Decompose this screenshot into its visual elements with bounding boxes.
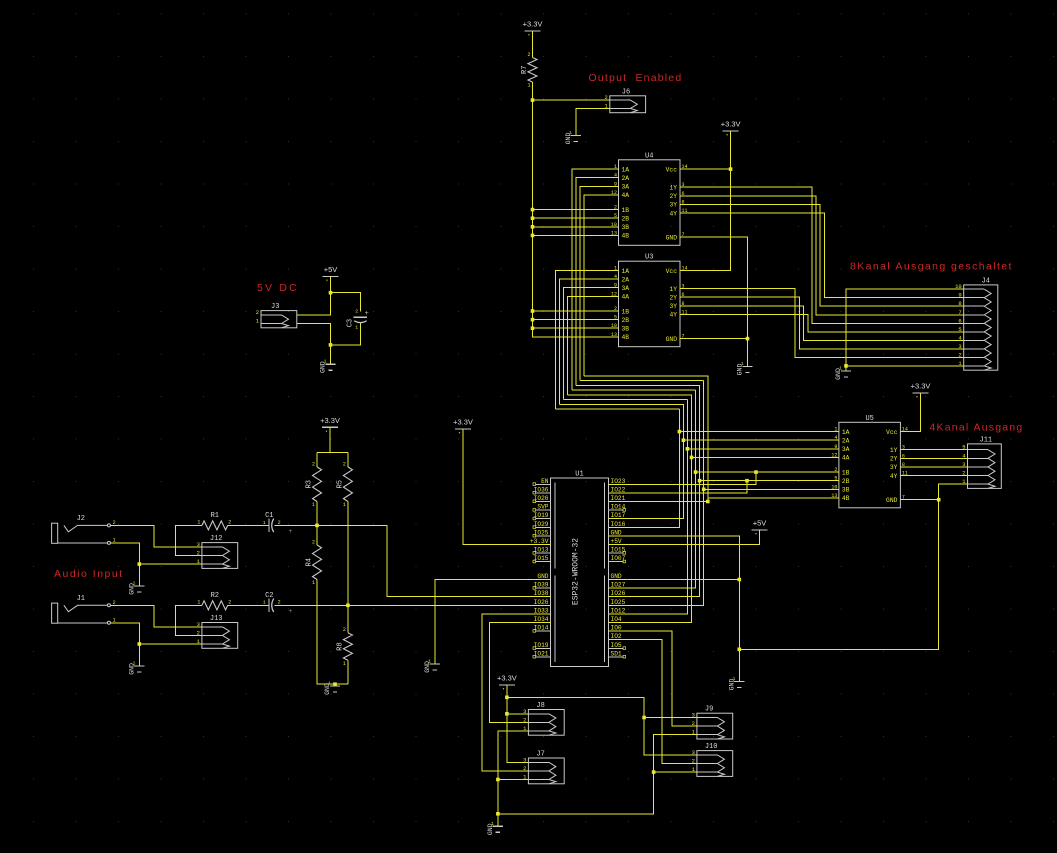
wire signal 3 to A input [564,288,619,400]
svg-text:IO27: IO27 [611,582,626,589]
svg-text:1: 1 [263,600,266,606]
wire to J9 pin3 [644,717,697,719]
svg-text:+3.3V: +3.3V [320,416,340,425]
svg-text:13: 13 [611,230,617,236]
wire gnd rail right [498,735,697,814]
wire U4 output to J4 pin 9 [680,213,964,298]
wire U4 output to J4 pin 8 [680,204,964,306]
svg-text:J1: J1 [77,595,85,603]
junction v6 U5 B tap [698,479,702,483]
wire U3 output to J4 pin 2 [680,289,964,358]
svg-text:GND: GND [537,573,548,580]
svg-text:2: 2 [228,519,231,525]
wire R1 to C1 [228,524,269,526]
svg-text:2A: 2A [622,175,630,182]
wire U5 GND to ground run [900,499,938,501]
svg-text:1A: 1A [622,166,630,173]
svg-text:3B: 3B [622,326,630,333]
junction 3v3 j2 [505,712,509,716]
svg-text:J8: J8 [536,702,544,710]
wire stair segment 2 [560,403,684,405]
wire stair segment 8 [584,375,708,377]
svg-text:IO38: IO38 [534,590,549,597]
svg-text:1B: 1B [622,207,630,214]
junction J7 pin1 gnd [496,778,500,782]
wire to J10 pin1 [654,771,697,773]
svg-text:C2: C2 [265,592,273,600]
svg-text:U5: U5 [865,415,873,423]
power +5V (input) [323,275,339,277]
svg-text:5: 5 [614,315,617,321]
wire node to J6 pin 2 [533,99,610,101]
svg-text:3A: 3A [622,285,630,292]
junction Vcc U4 [729,167,733,171]
resistor R3 [313,467,322,502]
audio jack J2 [52,523,58,543]
wire bias split [317,452,348,454]
wire R8 top [347,605,349,632]
svg-text:3: 3 [197,541,200,548]
wire tap to U5 B input 2 [700,480,839,482]
wire stair segment 7 [580,379,704,381]
svg-text:4Y: 4Y [669,210,677,217]
svg-text:IO21: IO21 [611,495,626,502]
svg-text:▾: ▾ [325,430,327,434]
svg-text:▾: ▾ [916,396,918,400]
svg-text:4A: 4A [622,294,630,301]
svg-text:J9: J9 [705,706,713,714]
audio jack J1 [52,603,58,623]
svg-text:IO15: IO15 [611,547,626,554]
svg-text:2: 2 [343,627,346,633]
connector J10 [697,751,733,777]
junction U5 GND [937,498,941,502]
wire R4 to gnd rail [317,580,348,685]
wire +3.3V to R7 [532,31,534,57]
wire tap to U5 A input 4 [692,456,839,458]
wire +3.3V to ESP32 [463,429,551,545]
wire J6 pin1 to GND [576,108,610,135]
wire to R3 [316,453,318,467]
wire enable to B input 6 [533,319,619,321]
junction enable bus 7 [531,326,535,330]
svg-text:IO5: IO5 [611,642,622,649]
wire J2 tip to J12 pin3 [110,525,201,547]
svg-text:4A: 4A [842,455,850,462]
wire IO26 to signal v6 [609,385,700,596]
ground below J1 [134,666,144,672]
svg-text:EN: EN [541,478,549,485]
connector J3 [261,311,297,328]
svg-text:GND: GND [666,336,678,343]
svg-text:3Y: 3Y [669,202,677,209]
wire J12 pin2 to R1 [176,525,202,555]
junction v4 U5 A tap [690,456,694,460]
resistor R4 [313,545,322,580]
svg-text:IO23: IO23 [611,478,626,485]
wire IO12 to signal v3 [609,400,688,614]
wire IO2 to J10 pin2 [609,640,697,764]
wire tap to U5 A input 1 [679,431,839,433]
svg-text:3B: 3B [842,487,850,494]
junction +5V node [329,291,333,295]
svg-text:1: 1 [312,580,315,586]
wire U4 Vcc [680,168,731,170]
resistor R8 [343,633,352,661]
svg-text:8Kanal Ausgang geschaltet: 8Kanal Ausgang geschaltet [850,261,1013,273]
svg-text:R3: R3 [306,480,314,488]
svg-text:2: 2 [614,306,617,312]
wire to J12 pin1 [139,563,202,565]
svg-text:U3: U3 [645,254,653,262]
wire U5 output to J11 pin 4 [900,457,967,459]
wire +3.3V to U5 Vcc [900,393,920,432]
svg-text:1: 1 [312,502,315,508]
svg-text:+5V: +5V [753,519,767,528]
svg-text:GND: GND [886,497,898,504]
ground below ESP32 [734,682,744,688]
svg-text:3: 3 [523,756,526,763]
quad AND gate U4 [619,160,681,246]
svg-text:2: 2 [312,539,315,545]
svg-text:4A: 4A [622,192,630,199]
wire ESP32 +5V [609,530,760,545]
wire +3.3V bias stem [329,427,331,452]
power +3.3V (R7 pullup) [525,30,541,32]
svg-text:C3: C3 [347,319,355,327]
svg-text:+3.3V: +3.3V [911,382,931,391]
svg-text:1: 1 [197,519,200,525]
wire U5 output to J11 pin 5 [900,449,967,451]
svg-text:2: 2 [527,52,530,58]
ground left of ESP32 [430,664,440,670]
wire U3 output to J4 pin 5 [680,314,964,331]
junction ground run bottom [738,648,742,652]
wire tap to U5 A input 3 [687,448,839,450]
junction node A [315,524,319,528]
wire J1 tip to J13 pin3 [110,605,201,627]
svg-text:IO2: IO2 [611,633,622,640]
connector J7 [528,758,564,784]
svg-text:1Y: 1Y [669,286,677,293]
junction enable bus 5 [531,309,535,313]
wire to J8 pin3 [507,713,529,715]
svg-text:IO16: IO16 [611,521,626,528]
junction GND r11 [738,578,742,582]
wire J8 pin1 gnd chain [498,731,529,826]
svg-text:1: 1 [133,660,136,666]
svg-text:3: 3 [692,749,695,756]
svg-text:2B: 2B [622,317,630,324]
connector J13 [202,623,238,649]
svg-text:IO07: IO07 [611,555,626,562]
junction v2 U5 A tap [682,438,686,442]
junction C3 gnd [329,343,333,347]
wire IO17 to signal v2 [609,404,684,518]
svg-text:J10: J10 [705,743,718,751]
svg-text:Vcc: Vcc [666,268,678,275]
svg-text:+3.3V: +3.3V [497,673,517,682]
svg-text:1B: 1B [622,308,630,315]
junction U3 GND [746,337,750,341]
svg-text:2: 2 [228,599,231,605]
svg-text:U1: U1 [575,471,583,479]
quad AND gate U3 [619,261,681,347]
microcontroller module U1 ESP32-WROOM-32 [551,478,609,667]
svg-text:10: 10 [611,323,617,329]
svg-text:Audio Input: Audio Input [54,568,124,580]
svg-text:+3.3V: +3.3V [523,20,543,29]
wire +5V to C3 [331,293,361,312]
svg-text:2: 2 [604,94,607,101]
svg-text:3Y: 3Y [890,464,898,471]
wire IO23 jog to 1B row [609,472,757,484]
wire 3v3 to right jumpers [507,697,697,755]
junction v8 U5 4B tap [706,500,710,504]
svg-text:2: 2 [278,520,281,526]
svg-text:U4: U4 [645,152,653,160]
svg-text:+: + [289,528,293,535]
svg-text:Vcc: Vcc [666,166,678,173]
wire stair segment 6 [576,384,700,386]
wire U3 GND [680,338,748,340]
svg-text:4Y: 4Y [669,312,677,319]
svg-text:+5V: +5V [324,265,338,274]
svg-text:1: 1 [569,130,572,136]
svg-text:R7: R7 [521,66,529,74]
junction 3v3 j3 [642,716,646,720]
svg-text:4B: 4B [622,233,630,240]
wire C3 bottom [331,323,361,345]
wire R5 to node B [347,502,349,606]
wire IO4 to signal v4 [609,395,692,623]
svg-text:1: 1 [733,676,736,682]
ground below R4 R8 [330,686,340,692]
wire IO21 to signal v8 [609,376,708,502]
svg-text:1Y: 1Y [890,447,898,454]
junction J2 ring GND [138,562,142,566]
svg-text:R5: R5 [336,480,344,488]
ground below J4 [841,371,851,377]
wire enable to B input 3 [533,226,619,228]
wire J11 pin1 ground run [739,484,967,649]
wire U5 output to J11 pin 2 [900,475,967,477]
svg-text:2Y: 2Y [890,456,898,463]
svg-text:IO25: IO25 [611,599,626,606]
ground bottom jumpers [493,826,503,832]
wire U4 GND down [680,237,748,366]
power +3.3V (bias) [322,426,338,428]
svg-text:4B: 4B [842,495,850,502]
wire stair segment 3 [564,398,688,400]
ground below U3 [742,367,752,373]
wire +5V stem [297,276,331,315]
wire enable to B input 7 [533,327,619,329]
svg-text:J12: J12 [210,535,223,543]
wire ESP32 left GND [435,580,551,664]
ground near J6 [571,136,581,142]
svg-text:Vcc: Vcc [886,429,898,436]
svg-text:1Y: 1Y [669,185,677,192]
svg-text:1: 1 [328,681,331,687]
connector J4 (8 channel output) [964,285,998,370]
wire IO27 to signal v5 [609,390,696,588]
resistor R1 [202,521,228,530]
wire ESP32 GND r11 [609,579,740,581]
svg-text:1: 1 [343,502,346,508]
svg-text:J4: J4 [982,277,990,285]
wire IO0 to J9 pin2 [609,631,697,726]
svg-text:3A: 3A [842,446,850,453]
svg-text:1: 1 [355,324,358,330]
svg-text:IO22: IO22 [611,486,626,493]
svg-text:▾: ▾ [528,34,530,38]
svg-text:▾: ▾ [755,533,757,537]
wire to R5 [347,453,349,467]
svg-text:2B: 2B [842,478,850,485]
power +3.3V (U4 U3 Vcc) [723,130,739,132]
svg-text:1: 1 [839,366,842,372]
svg-text:IO26: IO26 [534,599,549,606]
wire signal 2 to A input [560,279,619,404]
power +3.3V (U5 Vcc) [913,392,929,394]
wire J13 pin2 to R2 [176,605,202,635]
junction J4 ground [844,364,848,368]
svg-text:▾: ▾ [458,432,460,436]
wire IO33 to J7 pin2 [482,614,551,771]
capacitor C3 [354,316,368,318]
svg-text:1B: 1B [842,469,850,476]
svg-text:R8: R8 [336,642,344,650]
wire tap to U5 A input 2 [683,439,839,441]
wire IO22 jog to 2B row [609,481,748,493]
svg-text:GND: GND [666,235,678,242]
svg-text:SVP: SVP [537,504,548,511]
svg-text:5: 5 [614,213,617,219]
wire signal 6 to A input [576,178,619,386]
junction v5 U5 B tap [694,470,698,474]
power +5V (ESP32) [752,529,768,531]
connector J11 (4 channel output) [968,444,1002,489]
wire enable to B input 2 [533,217,619,219]
svg-text:IO17: IO17 [611,512,626,519]
svg-text:5V DC: 5V DC [257,282,299,294]
wire J4 pin10 to ground [846,289,964,371]
svg-text:13: 13 [611,332,617,338]
svg-text:2A: 2A [842,438,850,445]
ground 5V input [325,364,335,370]
svg-text:IO12: IO12 [611,607,626,614]
wire J3 pin1 down [297,324,331,345]
svg-text:2: 2 [312,461,315,467]
svg-text:ESP32-WROOM-32: ESP32-WROOM-32 [572,538,581,605]
wire ESP32 GND r7 [609,536,740,682]
svg-text:3Y: 3Y [669,303,677,310]
wire +3.3V jumper stem [507,685,529,762]
wire IO25 to signal v7 [609,381,704,606]
svg-text:C1: C1 [265,512,273,520]
svg-text:R1: R1 [211,512,219,520]
svg-text:3: 3 [523,708,526,715]
wire signal 5 to A input [572,169,619,390]
junction 3v3 j1 [505,696,509,700]
ground below J2 [134,586,144,592]
svg-text:3: 3 [692,712,695,719]
junction v7 U5 B tap [702,488,706,492]
svg-text:1: 1 [428,658,431,664]
svg-text:2Y: 2Y [669,193,677,200]
svg-text:3: 3 [197,621,200,628]
wire tap to U5 B input 3 [704,488,839,490]
svg-text:J2: J2 [77,515,85,523]
wire to J13 pin1 [139,643,202,645]
svg-text:2: 2 [355,309,358,315]
wire U3 output to J4 pin 3 [680,297,964,349]
wire node A run [274,525,550,596]
svg-text:R4: R4 [306,558,314,566]
svg-text:J11: J11 [980,436,993,444]
svg-text:1: 1 [263,520,266,526]
connector J6 [610,96,646,113]
wire signal 1 to A input [555,271,618,410]
svg-text:+5V: +5V [611,538,622,545]
power +3.3V (jumpers) [499,684,515,686]
wire enable to B input 1 [533,209,619,211]
wire U4 output to J4 pin 7 [680,196,964,315]
connector J9 [697,713,733,739]
svg-text:+: + [365,310,369,318]
wire R4 chain [316,525,318,545]
wire J1 ring to GND [110,623,139,666]
quad AND gate U5 [839,422,901,508]
svg-text:2: 2 [256,309,259,316]
svg-text:+3.3V: +3.3V [530,538,549,545]
svg-text:IO14: IO14 [611,504,626,511]
connector J12 [202,543,238,569]
svg-text:▾: ▾ [726,134,728,138]
wire enable to B input 5 [533,310,619,312]
junction enable bus 1 [531,208,535,212]
svg-text:GND: GND [611,573,622,580]
wire R2 to C2 [228,604,269,606]
svg-text:+: + [289,608,293,615]
svg-text:2: 2 [343,461,346,467]
svg-text:R2: R2 [211,592,219,600]
wire U5 output to J11 pin 3 [900,466,967,468]
resistor R7 [528,58,537,83]
svg-text:10: 10 [611,222,617,228]
wire signal 7 to A input [580,186,619,380]
resistor R2 [202,601,228,610]
wire to gnd [330,345,332,364]
wire Output Enabled bus vertical [533,100,619,337]
svg-text:J7: J7 [536,751,544,759]
wire signal 8 to A input [584,195,618,376]
svg-text:GND: GND [611,529,622,536]
wire U4 output to J4 pin 6 [680,187,964,323]
svg-text:+3.3V: +3.3V [721,120,741,129]
wire stair segment 5 [572,389,696,391]
junction J1 ring GND [138,642,142,646]
junction bias gnd [333,682,337,686]
wire node B run [274,604,550,606]
svg-text:IO26: IO26 [611,590,626,597]
wire enable to B input 4 [533,234,619,236]
wire R3 to node A [316,502,318,526]
svg-text:1: 1 [491,821,494,827]
wire IO16 to signal v1 [609,409,680,527]
junction enable bus 4 [531,234,535,238]
